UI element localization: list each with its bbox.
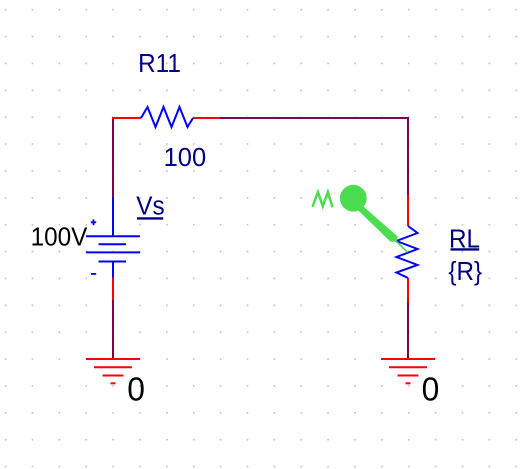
svg-text:100V: 100V — [31, 223, 88, 252]
svg-text:R11: R11 — [138, 49, 181, 78]
resistor RL value label {R} — [448, 257, 482, 286]
resistor RL — [397, 195, 418, 302]
resistor R11 ref label — [138, 49, 181, 78]
ground symbol (right) — [381, 359, 435, 383]
wire (left vertical, top wire corner to source) — [112, 117, 114, 197]
voltage source Vs (battery symbol) — [86, 197, 140, 278]
wire (left bottom, source to ground) — [112, 299, 114, 359]
ground label 0 (right) — [422, 371, 440, 408]
resistor R11 value label 100 — [164, 144, 207, 172]
resistor R11 — [112, 107, 220, 127]
svg-text:0: 0 — [422, 371, 440, 408]
voltage source Vs value label 100V — [31, 223, 88, 252]
voltage marker on RL — [313, 185, 408, 253]
ground label 0 (left) — [127, 371, 145, 408]
ground symbol (left) — [86, 359, 140, 383]
voltage source Vs name label — [136, 192, 164, 221]
svg-text:{R}: {R} — [448, 257, 482, 286]
voltage source Vs bottom pin — [112, 278, 114, 301]
wire (top horizontal from R11 right pin to right corner, down to RL) — [219, 118, 408, 195]
resistor RL ref label — [449, 225, 480, 254]
svg-text:0: 0 — [127, 371, 145, 408]
svg-text:100: 100 — [164, 144, 207, 172]
wire (right bottom, RL to ground) — [407, 301, 409, 359]
svg-text:Vs: Vs — [136, 192, 164, 221]
